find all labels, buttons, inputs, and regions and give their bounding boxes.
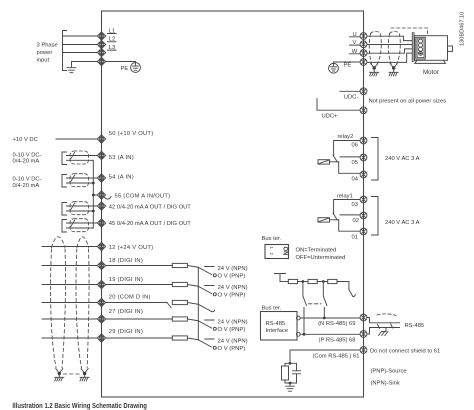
wire UDC- — [340, 90, 360, 92]
svg-text:(NPN)-Sink: (NPN)-Sink — [371, 381, 400, 387]
row 29: resistor — [172, 336, 187, 340]
wire L2 — [63, 44, 98, 46]
terminal 03 — [360, 196, 367, 203]
L1 L2 L3 label underlines — [108, 34, 117, 51]
wire from 68 — [367, 328, 400, 335]
svg-text:Not present on all power sizes: Not present on all power sizes — [369, 99, 447, 105]
svg-text:Illustration 1.2 Basic Wiring: Illustration 1.2 Basic Wiring Schematic … — [12, 401, 147, 410]
svg-text:0-10 V DC-: 0-10 V DC- — [13, 153, 42, 159]
wire R2-R3 — [317, 281, 327, 283]
potentiometer block 54: bracket — [62, 175, 67, 188]
terminal 20 — [97, 298, 105, 306]
svg-text:130BD467.10: 130BD467.10 — [460, 12, 466, 46]
terminal 69 — [360, 314, 367, 321]
svg-text:UDC+: UDC+ — [322, 114, 339, 120]
wire 54 top — [67, 177, 98, 179]
wire 29 — [42, 337, 98, 339]
svg-text:54 (A IN): 54 (A IN) — [109, 175, 134, 181]
svg-text:24 V (NPN): 24 V (NPN) — [218, 285, 248, 291]
svg-text:42 0/4-20 mA A OUT / DIG OUT: 42 0/4-20 mA A OUT / DIG OUT — [109, 205, 192, 211]
svg-text:PE: PE — [344, 63, 352, 69]
svg-text:(P RS-485) 68: (P RS-485) 68 — [319, 338, 356, 344]
drive enclosure box — [102, 11, 364, 397]
terminal L2 — [97, 40, 105, 48]
wire relay2 common to 04 — [339, 162, 360, 174]
svg-text:24 V (NPN): 24 V (NPN) — [218, 339, 248, 345]
termination switch 2 — [323, 282, 327, 319]
wire 69 — [300, 317, 359, 319]
svg-text:input: input — [37, 58, 50, 64]
termination switch right (open) — [349, 290, 355, 297]
node on wire 69 — [323, 317, 326, 320]
svg-text:240 V AC 3 A: 240 V AC 3 A — [385, 156, 420, 162]
cable shield dashes — [377, 314, 396, 316]
wire motor PE — [367, 53, 412, 62]
row 18: resistor — [172, 263, 187, 267]
bus termination DIP switch S1 — [265, 245, 289, 259]
svg-text:V: V — [353, 40, 357, 46]
svg-text:19 (DIGI IN): 19 (DIGI IN) — [109, 277, 143, 283]
terminal 61 — [360, 347, 367, 354]
analog common wire to 55 — [93, 160, 97, 228]
svg-text:relay2: relay2 — [338, 134, 354, 140]
motor terminal box — [416, 37, 426, 59]
terminal 61 wire to RC — [290, 350, 360, 363]
node R2-R3 — [322, 280, 325, 283]
row 18 switch — [198, 267, 214, 275]
svg-text:03: 03 — [352, 202, 358, 208]
terminal 02 — [360, 212, 367, 219]
shield ground left 1 — [55, 374, 64, 381]
termination switch 1 — [303, 282, 307, 335]
ground (mains input earth) — [67, 65, 76, 73]
terminal 27 — [97, 315, 105, 323]
terminal W — [360, 50, 367, 57]
3 phase input bracket — [63, 31, 67, 71]
svg-text:240 V AC 3 A: 240 V AC 3 A — [385, 220, 420, 226]
svg-text:relay1: relay1 — [337, 193, 353, 199]
PE symbol (left) — [131, 63, 141, 73]
interface pin 68 — [296, 332, 300, 336]
wire 20 — [42, 302, 98, 304]
wire relay1 common to 01 — [339, 220, 360, 231]
svg-text:0/4-20 mA: 0/4-20 mA — [13, 159, 40, 165]
row 19 switch — [198, 286, 214, 294]
RS-485 shield ground — [379, 332, 388, 336]
svg-text:O V (PNP): O V (PNP) — [218, 293, 246, 299]
row 27 switch — [198, 320, 214, 328]
svg-text:50 (+10 V OUT): 50 (+10 V OUT) — [109, 131, 154, 137]
svg-text:ON: ON — [282, 247, 288, 256]
relay1 blade — [333, 213, 337, 220]
terminal 06 — [360, 137, 367, 144]
motor shield ground 1 — [370, 69, 379, 76]
svg-text:06: 06 — [352, 143, 358, 149]
pot dashed box 53 — [70, 151, 89, 164]
terminal 19 — [97, 280, 105, 288]
terminal 55 — [97, 191, 105, 199]
row 29 switch — [198, 339, 214, 347]
terminal 50 — [97, 135, 105, 143]
relay1 coil lead — [330, 219, 339, 221]
wire L1 — [63, 35, 98, 37]
terminal 05 — [360, 154, 367, 161]
node RC bottom — [289, 382, 292, 385]
relay1 bracket — [372, 197, 379, 236]
wire 18 — [42, 265, 98, 267]
wire R3 end — [337, 282, 349, 290]
row 20: series blade and resistor — [106, 303, 171, 308]
row 20 open blade — [198, 304, 214, 311]
terminal 01 — [360, 228, 367, 235]
svg-text:Bus ter.: Bus ter. — [262, 306, 282, 312]
motor shield clamp legs — [371, 64, 398, 68]
svg-text:Do not connect shield to 61: Do not connect shield to 61 — [370, 349, 440, 355]
svg-text:(PNP)-Source: (PNP)-Source — [371, 368, 407, 374]
svg-text:20 (COM D IN): 20 (COM D IN) — [109, 295, 151, 301]
wire 45 return — [67, 227, 94, 229]
terminal U — [360, 33, 367, 40]
terminal 45 — [97, 219, 105, 227]
svg-text:W: W — [352, 49, 358, 55]
shield ground left 2 — [80, 374, 89, 381]
node on wire 68 — [303, 333, 306, 336]
node R1-R2 — [302, 280, 305, 283]
wire 54 return — [67, 182, 94, 184]
svg-text:O V (PNP): O V (PNP) — [218, 274, 246, 280]
capacitor C61 — [290, 363, 301, 383]
shield ticks — [378, 324, 393, 332]
wire mains PE — [72, 62, 98, 65]
load arrow 45 — [71, 220, 75, 227]
wire relay1 03 — [334, 200, 360, 215]
relay2 coil RE2 — [318, 160, 330, 164]
wire 68 — [300, 333, 359, 335]
svg-text:05: 05 — [352, 160, 358, 166]
svg-text:L3: L3 — [109, 45, 115, 51]
RS-485 interface box U3 — [261, 312, 298, 341]
svg-text:power: power — [37, 50, 53, 56]
wire 53 return — [67, 159, 94, 161]
motor gland plate — [412, 33, 414, 62]
svg-text:RS-485: RS-485 — [266, 321, 286, 327]
svg-text:27 (DIGI IN): 27 (DIGI IN) — [109, 309, 143, 315]
svg-text:24 V (NPN): 24 V (NPN) — [218, 266, 248, 272]
wire relay2 06 — [334, 141, 360, 157]
motor terminals — [419, 39, 423, 43]
terminal UDC- — [360, 88, 367, 95]
load arrow 42 — [71, 203, 75, 210]
terminal L1 — [97, 32, 105, 40]
svg-text:3 Phase: 3 Phase — [37, 42, 58, 48]
wire 27 — [42, 318, 98, 320]
terminal 54 — [97, 174, 105, 182]
wire V — [367, 44, 412, 46]
U V W label underlines — [350, 37, 361, 54]
terminal 53 — [97, 151, 105, 159]
motor PE bond dot — [419, 52, 421, 54]
svg-text:0-10 V DC-: 0-10 V DC- — [13, 177, 42, 183]
svg-text:(N RS-485) 69: (N RS-485) 69 — [318, 321, 355, 327]
resistor R3 — [328, 279, 337, 283]
svg-text:29 (DIGI IN): 29 (DIGI IN) — [109, 329, 143, 335]
pot arrow 54 — [71, 175, 75, 182]
wire W — [367, 49, 412, 53]
terminal UDC+ — [360, 107, 367, 114]
svg-text:04: 04 — [352, 177, 359, 183]
svg-text:+10 V DC: +10 V DC — [13, 137, 38, 143]
svg-text:01: 01 — [352, 234, 358, 240]
leader squiggle 55 — [105, 197, 112, 200]
resistor R61 — [285, 363, 290, 366]
wire 12 — [42, 246, 98, 248]
pot dashed box 54 — [70, 174, 89, 187]
terminal 12 — [97, 242, 105, 250]
wire 45 top — [67, 222, 98, 224]
svg-text:Motor: Motor — [423, 69, 439, 76]
svg-text:UDC-: UDC- — [344, 95, 359, 101]
svg-text:ON=Terminated: ON=Terminated — [296, 248, 337, 254]
wire +10V — [56, 138, 98, 140]
svg-text:O V (PNP): O V (PNP) — [218, 346, 246, 352]
control cable shield (dashed loops) — [51, 237, 89, 374]
motor shaft — [448, 46, 453, 51]
resistor R2 — [308, 279, 317, 283]
node RC top — [289, 362, 292, 365]
wire relay2 05 — [340, 156, 360, 158]
row 27: resistor — [172, 317, 187, 321]
wire L3 — [63, 52, 98, 54]
terminal 18 — [97, 261, 105, 269]
wire PE to earth circle — [106, 61, 136, 63]
shield clamp dots — [58, 372, 87, 375]
svg-text:Interface: Interface — [266, 328, 289, 334]
interface pin 69 — [296, 316, 300, 320]
svg-text:OFF=Unterminated: OFF=Unterminated — [296, 255, 346, 261]
row 19: resistor — [172, 282, 187, 286]
load dashed box 42 — [70, 202, 89, 215]
svg-text:(Com RS-485 ) 61: (Com RS-485 ) 61 — [312, 354, 359, 360]
motor shield clamp dots — [373, 66, 396, 69]
svg-text:02: 02 — [353, 218, 359, 224]
motor body — [415, 36, 448, 61]
junction dots analog common — [92, 182, 95, 213]
svg-text:55 (COM A IN/OUT): 55 (COM A IN/OUT) — [115, 193, 171, 199]
motor shield ground 2 — [389, 69, 398, 76]
relay1 coil RE1 — [318, 218, 330, 222]
svg-text:PE: PE — [121, 66, 129, 72]
resistor R1 — [288, 279, 297, 283]
wire PE out to earth circle — [334, 62, 361, 63]
relay2 blade — [333, 155, 337, 162]
wire relay1 02 — [340, 214, 360, 216]
terminal PE output — [360, 59, 367, 66]
terminal 42 — [97, 202, 105, 210]
wire 19 — [42, 284, 98, 286]
terminal 04 — [360, 171, 367, 178]
svg-text:0/4-20 mA: 0/4-20 mA — [13, 183, 40, 189]
terminal V — [360, 41, 367, 48]
PE symbol (right) — [329, 63, 339, 73]
RC ground — [286, 383, 295, 391]
+5V rail — [275, 274, 286, 282]
wire UDC+ — [317, 99, 360, 111]
svg-text:L1: L1 — [109, 28, 115, 34]
potentiometer block 53: bracket — [62, 152, 67, 165]
svg-text:53 (A IN): 53 (A IN) — [109, 155, 134, 161]
motor base — [415, 60, 446, 63]
svg-text:12 (+24 V OUT): 12 (+24 V OUT) — [109, 245, 154, 251]
pot arrow 53 — [71, 152, 75, 159]
svg-text:L2: L2 — [109, 37, 115, 43]
terminal 68 — [360, 331, 367, 338]
relay2 bracket — [372, 138, 379, 181]
terminal L3 — [97, 48, 105, 56]
wire from 69 — [367, 318, 400, 323]
terminal 29 — [97, 334, 105, 342]
svg-text:24 V (NPN): 24 V (NPN) — [218, 320, 248, 326]
svg-text:O V (PNP): O V (PNP) — [218, 327, 246, 333]
load dashed box 45 — [70, 219, 89, 232]
terminal PE input — [97, 57, 105, 65]
shield clamp legs left — [56, 369, 88, 374]
digital common select line — [197, 267, 199, 340]
svg-text:18 (DIGI IN): 18 (DIGI IN) — [109, 258, 143, 264]
wire 53 top — [67, 155, 98, 157]
motor cable shield loops — [369, 28, 427, 64]
output load block 42: bracket — [62, 203, 67, 216]
wire U — [367, 36, 412, 40]
wire 42 return — [67, 210, 94, 212]
switch coupling dashes — [309, 303, 322, 305]
wire to R1 — [280, 281, 288, 283]
output load block 45: bracket — [62, 220, 67, 233]
svg-text:45 0/4-20 mA A OUT / DIG OUT: 45 0/4-20 mA A OUT / DIG OUT — [109, 221, 192, 227]
svg-text:Bus ter.: Bus ter. — [262, 236, 282, 242]
wire 42 top — [67, 205, 98, 207]
wire R1-R2 — [298, 281, 308, 283]
svg-text:U: U — [353, 32, 357, 38]
relay2 coil lead — [330, 161, 339, 163]
svg-text:RS-485: RS-485 — [405, 323, 425, 329]
